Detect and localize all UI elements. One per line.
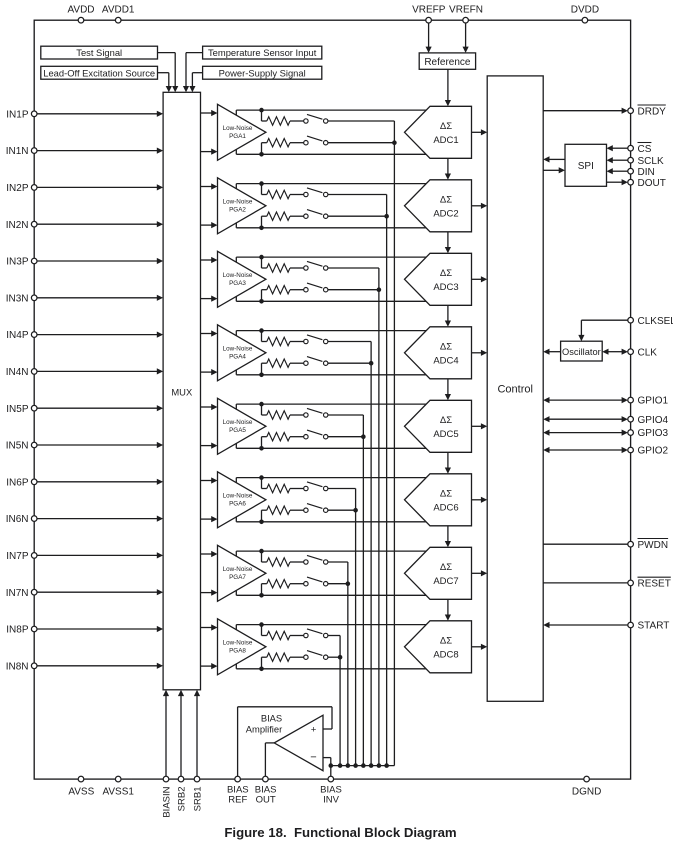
wire bias line ch2 to bias bus bbox=[386, 195, 388, 766]
reference block U10 Reference bbox=[419, 53, 475, 69]
adc U6 delta-sigma ADC6 bbox=[405, 474, 472, 526]
wire ADC2 to ADC3 chain bbox=[447, 232, 449, 249]
pin GPIO3 bbox=[628, 430, 634, 436]
wire R8a to switch S8a bbox=[290, 635, 304, 637]
wire PGA5 bottom rail to ADC5 bbox=[236, 447, 426, 449]
wire ADC5 to ADC6 chain bbox=[447, 452, 449, 469]
node feedback tap bottom ch3 bbox=[259, 299, 264, 304]
pin START bbox=[628, 622, 634, 628]
wire SPI to Control bbox=[549, 158, 565, 160]
svg-text:IN5N: IN5N bbox=[6, 441, 29, 452]
switch S7a bbox=[304, 560, 308, 564]
wire bias line ch4 to bias bus bbox=[370, 342, 372, 766]
svg-text:GPIO4: GPIO4 bbox=[638, 415, 669, 426]
op-amp PGA7 Low-Noise bbox=[218, 545, 266, 601]
wire IN6P to MUX bbox=[37, 481, 157, 483]
wire IN1N to MUX bbox=[37, 150, 157, 152]
pin AVDD bbox=[78, 17, 84, 23]
svg-text:PGA1: PGA1 bbox=[229, 133, 246, 140]
resistor R7b bbox=[267, 580, 290, 588]
svg-text:ADC5: ADC5 bbox=[433, 429, 458, 440]
resistor R3b bbox=[267, 286, 290, 294]
wire IN4P to MUX bbox=[37, 334, 157, 336]
resistor R8b bbox=[267, 653, 290, 661]
node feedback tap bottom ch1 bbox=[259, 152, 264, 157]
pin GPIO2 bbox=[628, 447, 634, 453]
wire R4a to switch S4a bbox=[290, 341, 304, 343]
wire S5a to bias line ch5 bbox=[328, 414, 363, 416]
wire S6a to bias line ch6 bbox=[328, 488, 356, 490]
op-amp PGA4 Low-Noise bbox=[218, 325, 266, 381]
svg-text:PGA5: PGA5 bbox=[229, 427, 246, 434]
svg-text:Low-Noise: Low-Noise bbox=[223, 492, 253, 499]
pin DGND bbox=[584, 776, 590, 782]
wire tap to resistor R6a bbox=[261, 478, 263, 489]
svg-text:ADC7: ADC7 bbox=[433, 576, 458, 587]
svg-text:RESET: RESET bbox=[638, 579, 671, 590]
svg-text:IN1N: IN1N bbox=[6, 146, 29, 157]
bias amplifier boundary box bbox=[237, 707, 239, 777]
resistor R2b bbox=[267, 212, 290, 220]
svg-text:Power-Supply Signal: Power-Supply Signal bbox=[219, 67, 306, 78]
wire PGA4 top rail to ADC4 bbox=[236, 330, 426, 332]
wire S3a to bias line ch3 bbox=[328, 267, 379, 269]
svg-text:INV: INV bbox=[323, 794, 340, 805]
wire START to Control bbox=[549, 624, 628, 626]
op-amp BIAS Amplifier bbox=[274, 715, 323, 771]
node bias bus junction ch3 bbox=[377, 763, 382, 768]
wire BIASIN to MUX bbox=[165, 696, 167, 777]
switch S2a bbox=[304, 192, 308, 196]
resistor R3a bbox=[267, 264, 290, 272]
svg-text:Control: Control bbox=[497, 383, 532, 395]
wire ADC5 output to Control bbox=[472, 425, 482, 427]
wire PGA1 bottom rail to ADC1 bbox=[236, 153, 426, 155]
svg-text:AVSS1: AVSS1 bbox=[102, 786, 134, 797]
node bias line junction ch8 bbox=[338, 655, 343, 660]
wire ADC7 to ADC8 chain bbox=[447, 599, 449, 616]
wire MUX to PGA6 negative input bbox=[201, 518, 212, 520]
svg-text:IN7N: IN7N bbox=[6, 588, 29, 599]
svg-text:ΔΣ: ΔΣ bbox=[440, 415, 452, 426]
adc U3 delta-sigma ADC3 bbox=[405, 253, 472, 305]
node feedback tap top ch7 bbox=[259, 549, 264, 554]
wire Control to GPIO1 bidirectional bbox=[549, 399, 622, 401]
svg-text:IN5P: IN5P bbox=[6, 404, 29, 415]
wire ADC1 output to Control bbox=[472, 131, 482, 133]
switch S6a bbox=[304, 486, 308, 490]
wire tap to resistor R3a bbox=[261, 257, 263, 268]
wire R1a to switch S1a bbox=[290, 120, 304, 122]
wire tap to resistor R2a bbox=[261, 184, 263, 195]
svg-text:SCLK: SCLK bbox=[638, 156, 664, 167]
svg-text:ADC2: ADC2 bbox=[433, 208, 458, 219]
wire MUX to PGA2 negative input bbox=[201, 224, 212, 226]
wire bias line ch1 to bias bus bbox=[393, 121, 395, 766]
op-amp PGA1 Low-Noise bbox=[218, 104, 266, 160]
svg-text:+: + bbox=[311, 724, 317, 735]
svg-text:IN8N: IN8N bbox=[6, 661, 29, 672]
wire Oscillator to CLK bidirectional bbox=[608, 351, 622, 353]
pin DIN bbox=[628, 168, 634, 174]
wire bias line ch3 to bias bus bbox=[378, 268, 380, 766]
wire bias line ch7 to bias bus bbox=[347, 562, 349, 766]
pin BIAS OUT bbox=[263, 776, 269, 782]
wire IN4N to MUX bbox=[37, 370, 157, 372]
control block Control bbox=[487, 76, 543, 701]
adc U1 delta-sigma ADC1 bbox=[405, 106, 472, 158]
svg-text:ΔΣ: ΔΣ bbox=[440, 268, 452, 279]
wire SCLK to SPI bbox=[613, 159, 628, 161]
wire S7b to bias line ch7 bbox=[328, 583, 348, 585]
wire S3b to bias line ch3 bbox=[328, 289, 379, 291]
wire R6b to switch S6b bbox=[290, 509, 304, 511]
wire MUX to PGA4 positive input bbox=[201, 333, 212, 335]
wire Control to PWDN bbox=[543, 543, 628, 545]
svg-text:DVDD: DVDD bbox=[571, 4, 599, 15]
wire S1b to bias line ch1 bbox=[328, 142, 395, 144]
node bias bus junction ch8 bbox=[338, 763, 343, 768]
outer device boundary box bbox=[34, 20, 630, 779]
op-amp PGA5 Low-Noise bbox=[218, 398, 266, 454]
pin AVSS1 bbox=[115, 776, 121, 782]
wire PGA6 bottom rail to ADC6 bbox=[236, 521, 426, 523]
wire MUX to PGA6 positive input bbox=[201, 480, 212, 482]
pin CS bbox=[628, 145, 634, 151]
pin VREFN bbox=[463, 17, 469, 23]
svg-text:PGA2: PGA2 bbox=[229, 206, 246, 213]
wire R3a to switch S3a bbox=[290, 267, 304, 269]
resistor R5a bbox=[267, 411, 290, 419]
wire CLKSEL to Oscillator bbox=[581, 319, 628, 321]
resistor R1b bbox=[267, 139, 290, 147]
resistor R6a bbox=[267, 484, 290, 492]
node bias bus junction ch6 bbox=[353, 763, 358, 768]
wire Control to GPIO2 bidirectional bbox=[549, 449, 622, 451]
wire R5b to switch S5b bbox=[290, 436, 304, 438]
svg-text:ΔΣ: ΔΣ bbox=[440, 195, 452, 206]
wire Control to GPIO4 bidirectional bbox=[549, 418, 622, 420]
node bias line junction ch4 bbox=[369, 361, 374, 366]
oscillator block Oscillator bbox=[561, 341, 603, 361]
pin DRDY bbox=[628, 108, 634, 114]
wire ADC7 output to Control bbox=[472, 572, 482, 574]
wire bias bus bbox=[331, 765, 395, 767]
wire tap to resistor R4b bbox=[261, 363, 263, 375]
adc U8 delta-sigma ADC8 bbox=[405, 621, 472, 673]
svg-text:Amplifier: Amplifier bbox=[246, 723, 282, 734]
switch S8b bbox=[304, 655, 308, 659]
block Temperature Sensor Input bbox=[203, 46, 322, 59]
svg-text:Reference: Reference bbox=[424, 57, 471, 68]
svg-text:ADC1: ADC1 bbox=[433, 135, 458, 146]
node feedback tap bottom ch6 bbox=[259, 520, 264, 525]
wire S4a to bias line ch4 bbox=[328, 341, 371, 343]
wire tap to resistor R8a bbox=[261, 625, 263, 636]
wire R6a to switch S6a bbox=[290, 488, 304, 490]
wire MUX to PGA1 negative input bbox=[201, 151, 212, 153]
svg-text:IN2P: IN2P bbox=[6, 183, 29, 194]
wire PGA6 top rail to ADC6 bbox=[236, 477, 426, 479]
resistor R4b bbox=[267, 359, 290, 367]
wire ADC4 output to Control bbox=[472, 352, 482, 354]
op-amp PGA3 Low-Noise bbox=[218, 251, 266, 307]
op-amp PGA2 Low-Noise bbox=[218, 178, 266, 234]
wire tap to resistor R1a bbox=[261, 110, 263, 121]
pin GPIO1 bbox=[628, 397, 634, 403]
wire S7a to bias line ch7 bbox=[328, 561, 348, 563]
svg-text:PWDN: PWDN bbox=[638, 540, 669, 551]
node feedback tap top ch8 bbox=[259, 622, 264, 627]
wire tap to resistor R1b bbox=[261, 143, 263, 155]
adc U2 delta-sigma ADC2 bbox=[405, 180, 472, 232]
svg-text:Test Signal: Test Signal bbox=[76, 47, 122, 58]
wire IN2P to MUX bbox=[37, 186, 157, 188]
wire R2a to switch S2a bbox=[290, 194, 304, 196]
wire R7b to switch S7b bbox=[290, 583, 304, 585]
block Lead-Off Excitation Source bbox=[41, 66, 158, 79]
svg-text:SRB1: SRB1 bbox=[193, 787, 204, 812]
wire SPI to DOUT bbox=[607, 181, 622, 183]
wire bias line ch8 to bias bus bbox=[339, 636, 341, 766]
switch S8a bbox=[304, 633, 308, 637]
wire MUX to PGA4 negative input bbox=[201, 371, 212, 373]
svg-text:IN8P: IN8P bbox=[6, 625, 29, 636]
wire PGA7 bottom rail to ADC7 bbox=[236, 594, 426, 596]
wire ADC8 output to Control bbox=[472, 646, 482, 648]
pin RESET bbox=[628, 580, 634, 586]
wire PGA2 bottom rail to ADC2 bbox=[236, 227, 426, 229]
svg-text:ΔΣ: ΔΣ bbox=[440, 342, 452, 353]
op-amp PGA6 Low-Noise bbox=[218, 472, 266, 528]
wire PGA3 bottom rail to ADC3 bbox=[236, 300, 426, 302]
wire MUX to PGA8 positive input bbox=[201, 627, 212, 629]
svg-text:Low-Noise: Low-Noise bbox=[223, 198, 253, 205]
node bias line junction ch5 bbox=[361, 434, 366, 439]
switch S6b bbox=[304, 508, 308, 512]
svg-text:GPIO3: GPIO3 bbox=[638, 428, 669, 439]
switch S1a bbox=[304, 119, 308, 123]
svg-text:MUX: MUX bbox=[171, 387, 193, 398]
resistor R8a bbox=[267, 631, 290, 639]
node feedback tap top ch4 bbox=[259, 328, 264, 333]
wire S5b to bias line ch5 bbox=[328, 436, 363, 438]
pin CLKSEL bbox=[628, 317, 634, 323]
wire ADC4 to ADC5 chain bbox=[447, 379, 449, 396]
node feedback tap bottom ch7 bbox=[259, 593, 264, 598]
node feedback tap top ch6 bbox=[259, 475, 264, 480]
resistor R7a bbox=[267, 558, 290, 566]
wire IN7N to MUX bbox=[37, 591, 157, 593]
resistor R2a bbox=[267, 190, 290, 198]
svg-text:ADC6: ADC6 bbox=[433, 502, 458, 513]
svg-text:PGA4: PGA4 bbox=[229, 353, 246, 360]
wire MUX to PGA3 positive input bbox=[201, 259, 212, 261]
node bias line junction ch7 bbox=[346, 581, 351, 586]
svg-text:SRB2: SRB2 bbox=[177, 787, 188, 812]
pin BIAS INV bbox=[328, 776, 334, 782]
svg-text:ΔΣ: ΔΣ bbox=[440, 562, 452, 573]
wire PGA2 top rail to ADC2 bbox=[236, 183, 426, 185]
wire Control to GPIO3 bidirectional bbox=[549, 432, 622, 434]
pin SRB1 bbox=[194, 776, 200, 782]
svg-text:AVSS: AVSS bbox=[68, 786, 94, 797]
svg-text:GPIO2: GPIO2 bbox=[638, 446, 669, 457]
node bias line junction ch1 bbox=[392, 140, 397, 145]
svg-text:Figure 18. Functional Block D: Figure 18. Functional Block Diagram bbox=[224, 825, 456, 840]
svg-text:Lead-Off Excitation Source: Lead-Off Excitation Source bbox=[43, 67, 155, 78]
wire tap to resistor R2b bbox=[261, 216, 263, 228]
node feedback tap bottom ch5 bbox=[259, 446, 264, 451]
svg-text:IN3N: IN3N bbox=[6, 293, 29, 304]
svg-text:IN7P: IN7P bbox=[6, 551, 29, 562]
pin DOUT bbox=[628, 179, 634, 185]
resistor R5b bbox=[267, 433, 290, 441]
pin BIASIN bbox=[163, 776, 169, 782]
switch S2b bbox=[304, 214, 308, 218]
svg-text:Low-Noise: Low-Noise bbox=[223, 566, 253, 573]
wire tap to resistor R6b bbox=[261, 510, 263, 522]
wire IN5N to MUX bbox=[37, 444, 157, 446]
node bias bus junction ch2 bbox=[384, 763, 389, 768]
switch S3b bbox=[304, 288, 308, 292]
wire S8a to bias line ch8 bbox=[328, 635, 340, 637]
svg-text:Low-Noise: Low-Noise bbox=[223, 419, 253, 426]
pin PWDN bbox=[628, 541, 634, 547]
resistor R4a bbox=[267, 337, 290, 345]
node bias bus junction ch5 bbox=[361, 763, 366, 768]
svg-text:IN3P: IN3P bbox=[6, 257, 29, 268]
svg-text:Oscillator: Oscillator bbox=[562, 347, 601, 357]
wire MUX to PGA2 positive input bbox=[201, 186, 212, 188]
node bias bus junction ch4 bbox=[369, 763, 374, 768]
switch S4a bbox=[304, 339, 308, 343]
svg-text:ΔΣ: ΔΣ bbox=[440, 489, 452, 500]
wire SRB2 to MUX bbox=[180, 696, 182, 777]
wire IN6N to MUX bbox=[37, 518, 157, 520]
wire MUX to PGA7 positive input bbox=[201, 553, 212, 555]
node feedback tap top ch3 bbox=[259, 255, 264, 260]
wire R2b to switch S2b bbox=[290, 215, 304, 217]
wire MUX to PGA5 positive input bbox=[201, 406, 212, 408]
adc U7 delta-sigma ADC7 bbox=[405, 547, 472, 599]
svg-text:GPIO1: GPIO1 bbox=[638, 396, 669, 407]
wire S2b to bias line ch2 bbox=[328, 215, 387, 217]
wire tap to resistor R7b bbox=[261, 584, 263, 596]
svg-text:IN6N: IN6N bbox=[6, 514, 29, 525]
node feedback tap bottom ch8 bbox=[259, 667, 264, 672]
switch S5a bbox=[304, 413, 308, 417]
svg-text:REF: REF bbox=[228, 794, 247, 805]
svg-text:IN4P: IN4P bbox=[6, 330, 29, 341]
svg-text:START: START bbox=[638, 621, 670, 632]
svg-text:PGA3: PGA3 bbox=[229, 280, 246, 287]
wire bias line ch5 to bias bus bbox=[362, 415, 364, 766]
pin SRB2 bbox=[178, 776, 184, 782]
switch S4b bbox=[304, 361, 308, 365]
wire MUX to PGA3 negative input bbox=[201, 298, 212, 300]
wire MUX to PGA7 negative input bbox=[201, 592, 212, 594]
wire IN2N to MUX bbox=[37, 223, 157, 225]
wire PGA3 top rail to ADC3 bbox=[236, 256, 426, 258]
svg-text:PGA6: PGA6 bbox=[229, 500, 246, 507]
wire Temperature Sensor Input to MUX bbox=[186, 52, 203, 54]
wire S1a to bias line ch1 bbox=[328, 120, 395, 122]
wire Reference to ADC1 bbox=[447, 69, 449, 101]
spi block SPI bbox=[565, 144, 607, 186]
svg-text:Low-Noise: Low-Noise bbox=[223, 639, 253, 646]
pin CLK bbox=[628, 349, 634, 355]
multiplexer MUX bbox=[163, 92, 200, 690]
svg-text:Low-Noise: Low-Noise bbox=[223, 272, 253, 279]
svg-text:AVDD: AVDD bbox=[67, 4, 94, 15]
pin SCLK bbox=[628, 157, 634, 163]
wire ADC6 output to Control bbox=[472, 499, 482, 501]
node bias line junction ch6 bbox=[353, 508, 358, 513]
node feedback tap bottom ch2 bbox=[259, 226, 264, 231]
svg-text:DRDY: DRDY bbox=[638, 106, 667, 117]
wire DIN to SPI bbox=[613, 170, 628, 172]
wire ADC1 to ADC2 chain bbox=[447, 158, 449, 175]
svg-text:CS: CS bbox=[638, 144, 652, 155]
wire Control to RESET bbox=[543, 582, 628, 584]
svg-text:−: − bbox=[310, 752, 316, 764]
wire CS to SPI bbox=[613, 147, 628, 149]
wire tap to resistor R7a bbox=[261, 551, 263, 562]
wire PGA7 top rail to ADC7 bbox=[236, 550, 426, 552]
svg-text:IN2N: IN2N bbox=[6, 220, 29, 231]
wire Control to DRDY bbox=[543, 110, 622, 112]
svg-text:OUT: OUT bbox=[256, 794, 276, 805]
block Power-Supply Signal bbox=[203, 66, 322, 79]
svg-text:ADC3: ADC3 bbox=[433, 282, 458, 293]
svg-text:IN1P: IN1P bbox=[6, 109, 29, 120]
svg-text:ADC4: ADC4 bbox=[433, 355, 458, 366]
svg-text:Temperature Sensor Input: Temperature Sensor Input bbox=[208, 47, 317, 58]
node feedback tap bottom ch4 bbox=[259, 373, 264, 378]
svg-text:ΔΣ: ΔΣ bbox=[440, 121, 452, 132]
switch S1b bbox=[304, 141, 308, 145]
wire IN5P to MUX bbox=[37, 407, 157, 409]
svg-text:DGND: DGND bbox=[572, 786, 601, 797]
wire tap to resistor R5a bbox=[261, 404, 263, 415]
svg-text:VREFP: VREFP bbox=[412, 4, 446, 15]
svg-text:BIASIN: BIASIN bbox=[162, 786, 173, 817]
svg-text:PGA8: PGA8 bbox=[229, 647, 246, 654]
svg-text:Low-Noise: Low-Noise bbox=[223, 345, 253, 352]
wire tap to resistor R3b bbox=[261, 290, 263, 302]
svg-text:ADC8: ADC8 bbox=[433, 649, 458, 660]
svg-text:Low-Noise: Low-Noise bbox=[223, 125, 253, 132]
node feedback tap top ch2 bbox=[259, 181, 264, 186]
switch S3a bbox=[304, 266, 308, 270]
svg-text:CLKSEL: CLKSEL bbox=[638, 316, 673, 327]
wire BIAS Amplifier inverting input to bias bus bbox=[323, 757, 331, 759]
wire Test Signal to MUX bbox=[158, 52, 176, 54]
svg-text:SPI: SPI bbox=[578, 161, 594, 172]
node feedback tap top ch1 bbox=[259, 108, 264, 113]
svg-text:CLK: CLK bbox=[638, 347, 658, 358]
svg-text:PGA7: PGA7 bbox=[229, 574, 246, 581]
wire R7a to switch S7a bbox=[290, 561, 304, 563]
wire tap to resistor R5b bbox=[261, 437, 263, 449]
wire PGA8 bottom rail to ADC8 bbox=[236, 668, 426, 670]
pin GPIO4 bbox=[628, 416, 634, 422]
node bias bus junction ch7 bbox=[346, 763, 351, 768]
svg-text:VREFN: VREFN bbox=[449, 4, 483, 15]
wire R3b to switch S3b bbox=[290, 289, 304, 291]
wire Lead-Off Excitation Source to MUX bbox=[158, 72, 169, 74]
